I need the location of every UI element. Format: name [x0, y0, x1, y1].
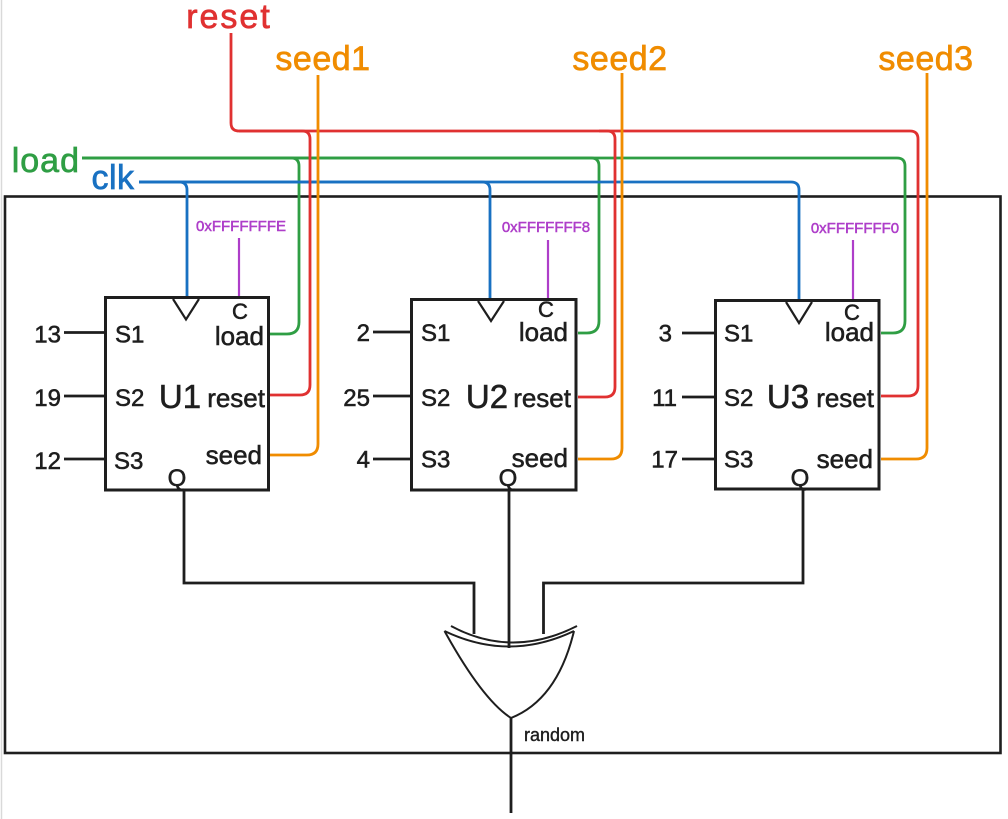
svg-text:S1: S1	[724, 321, 753, 348]
svg-text:random: random	[524, 725, 585, 745]
svg-text:S3: S3	[114, 448, 143, 475]
svg-text:seed: seed	[206, 440, 262, 470]
svg-text:reset: reset	[816, 383, 875, 413]
svg-text:11: 11	[652, 385, 677, 412]
svg-text:0xFFFFFFFE: 0xFFFFFFFE	[196, 218, 286, 235]
svg-text:S2: S2	[421, 385, 450, 412]
svg-text:S1: S1	[115, 322, 144, 349]
svg-text:2: 2	[357, 320, 370, 347]
svg-text:S1: S1	[421, 320, 450, 347]
svg-text:U2: U2	[466, 378, 508, 415]
svg-text:seed2: seed2	[572, 40, 667, 78]
svg-text:S3: S3	[724, 447, 753, 474]
svg-text:0xFFFFFFF8: 0xFFFFFFF8	[502, 219, 590, 236]
svg-text:seed3: seed3	[878, 40, 973, 78]
svg-text:13: 13	[34, 322, 61, 349]
svg-text:C: C	[844, 300, 860, 325]
svg-text:3: 3	[659, 321, 672, 348]
svg-text:reset: reset	[207, 383, 266, 413]
svg-text:clk: clk	[91, 159, 135, 197]
svg-text:S2: S2	[724, 385, 753, 412]
svg-text:Q: Q	[791, 465, 810, 492]
svg-text:seed1: seed1	[275, 40, 370, 78]
svg-text:seed: seed	[512, 443, 568, 473]
svg-text:C: C	[538, 297, 554, 322]
svg-text:S3: S3	[421, 447, 450, 474]
svg-text:S2: S2	[115, 385, 144, 412]
svg-text:19: 19	[34, 385, 61, 412]
svg-text:seed: seed	[817, 444, 873, 474]
svg-text:25: 25	[343, 385, 370, 412]
svg-text:Q: Q	[168, 465, 187, 492]
svg-text:load: load	[215, 321, 264, 351]
svg-text:reset: reset	[186, 0, 272, 36]
svg-text:U1: U1	[159, 378, 201, 415]
svg-text:17: 17	[651, 447, 678, 474]
svg-text:4: 4	[357, 447, 370, 474]
svg-text:0xFFFFFFF0: 0xFFFFFFF0	[811, 220, 899, 237]
svg-text:reset: reset	[513, 383, 572, 413]
svg-text:C: C	[232, 299, 248, 324]
svg-text:load: load	[12, 142, 80, 180]
svg-text:U3: U3	[767, 378, 809, 415]
svg-text:Q: Q	[499, 465, 518, 492]
svg-text:12: 12	[34, 448, 61, 475]
